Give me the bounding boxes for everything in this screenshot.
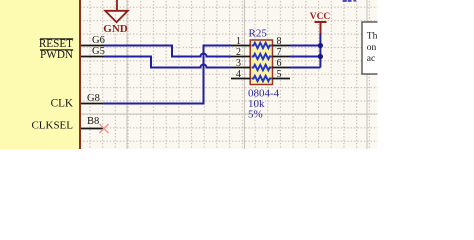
wire R25 pin7 to VCC rail xyxy=(290,56,320,58)
R25 pin 7 stub xyxy=(273,56,291,58)
svg-text:VCC: VCC xyxy=(310,12,331,22)
wire PWDN G5 to R25 pin3 (hop over CLK wire) xyxy=(104,57,231,68)
resistor element 2 xyxy=(252,54,272,59)
wire R25 pin8 to VCC rail xyxy=(290,45,320,47)
svg-text:2: 2 xyxy=(236,47,241,58)
R25 pin 8 stub xyxy=(273,45,291,47)
R25 pin 1 stub xyxy=(231,45,250,47)
svg-text:5%: 5% xyxy=(248,109,263,121)
svg-text:B8: B8 xyxy=(87,116,99,127)
svg-text:G5: G5 xyxy=(92,46,105,57)
resistor element 4 xyxy=(252,76,272,81)
R25 pin 3 stub xyxy=(231,67,250,69)
svg-text:GND: GND xyxy=(103,23,128,35)
pin G6 xyxy=(81,45,104,47)
svg-text:PWDN: PWDN xyxy=(40,49,73,61)
svg-text:CLKSEL: CLKSEL xyxy=(31,120,73,132)
svg-text:on: on xyxy=(367,43,377,53)
cropped text fragments at top edge xyxy=(343,0,357,2)
wire R25 pin6 to VCC rail xyxy=(290,67,320,69)
IC body (partial, left) xyxy=(0,0,81,149)
svg-text:1: 1 xyxy=(236,36,241,47)
pin B8 xyxy=(81,128,103,130)
svg-text:4: 4 xyxy=(236,69,241,80)
svg-text:G6: G6 xyxy=(92,35,105,46)
power symbol VCC xyxy=(315,22,327,34)
pin G5 xyxy=(81,56,104,58)
svg-text:5: 5 xyxy=(277,69,282,80)
wire RESET G6 to R25 pin2 (hop over CLK wire) xyxy=(104,46,231,57)
R25 pin 2 stub xyxy=(231,56,250,58)
svg-text:3: 3 xyxy=(236,58,241,69)
svg-text:8: 8 xyxy=(277,36,282,47)
R25 pin 5 stub xyxy=(273,78,291,80)
junction VCC/pin8 xyxy=(318,43,323,48)
wire CLK G8 to R25 pin1 xyxy=(103,46,231,104)
pin G8 xyxy=(81,103,104,105)
svg-text:ac: ac xyxy=(367,54,375,64)
svg-text:R25: R25 xyxy=(249,28,268,40)
wire VCC vertical rail xyxy=(319,34,321,68)
pin name PWDN (with overline) xyxy=(40,49,73,61)
R25 pin 6 stub xyxy=(273,67,291,69)
pin name RESET (with overline) xyxy=(39,38,73,50)
junction VCC/pin7 xyxy=(318,54,323,59)
svg-text:7: 7 xyxy=(277,47,282,58)
note text box (partial) xyxy=(362,22,392,74)
no-connect X on pin B8 xyxy=(100,124,109,133)
resistor element 3 xyxy=(252,65,272,70)
ground symbol GND xyxy=(105,0,128,22)
R25 pin 4 stub xyxy=(231,78,250,80)
svg-text:G8: G8 xyxy=(87,93,100,104)
svg-text:CLK: CLK xyxy=(51,98,73,110)
resistor pack R25 body xyxy=(250,40,272,85)
svg-text:6: 6 xyxy=(277,58,282,69)
resistor element 1 xyxy=(252,43,272,48)
